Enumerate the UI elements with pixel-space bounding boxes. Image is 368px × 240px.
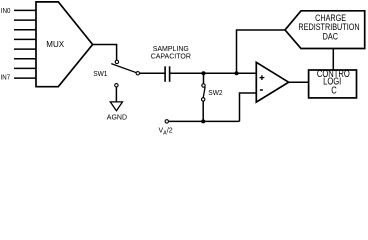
node junction bottom	[201, 119, 205, 123]
wire input 7	[14, 67, 36, 69]
svg-text:REDISTRIBUTION: REDISTRIBUTION	[298, 22, 359, 32]
wire junction to DAC	[237, 30, 286, 73]
switch SW1 arm	[111, 64, 138, 74]
wire capacitor to comparator	[170, 72, 257, 74]
wire input IN7	[14, 77, 36, 79]
wire input IN0	[14, 9, 36, 11]
wire input 6	[14, 58, 36, 60]
wire input 3	[14, 29, 36, 31]
AGND terminal circle	[115, 84, 118, 87]
svg-text:MUX: MUX	[46, 40, 64, 49]
switch SW2 terminal circle top	[202, 84, 205, 87]
dac U3 charge redistribution	[285, 11, 365, 49]
wire SW1 to sampling capacitor	[140, 72, 166, 74]
terminal circle VA/2	[165, 120, 168, 123]
svg-text:IN7: IN7	[1, 74, 11, 81]
switch SW2 arm	[203, 87, 205, 98]
op-amp comparator U2	[256, 62, 288, 102]
switch SW2 terminal circle bottom	[202, 98, 205, 101]
comparator minus sign	[260, 89, 263, 91]
svg-text:IN0: IN0	[1, 8, 11, 15]
wire junction to SW2	[203, 73, 205, 84]
control logic box U4	[309, 70, 357, 98]
wire bus up to comparator minus input	[240, 93, 257, 121]
comparator plus sign	[260, 77, 265, 79]
svg-text:SAMPLING: SAMPLING	[153, 46, 189, 53]
wire dac to control logic	[332, 49, 334, 70]
wire input 4	[14, 38, 36, 40]
switch SW1 terminal circle 1	[115, 60, 118, 63]
svg-text:CAPACITOR: CAPACITOR	[151, 54, 191, 61]
wire input 2	[14, 19, 36, 21]
capacitor C1 sampling plates	[164, 66, 166, 82]
wire input 5	[14, 48, 36, 50]
wire SW2 to bottom bus	[202, 101, 204, 121]
svg-text:AGND: AGND	[107, 114, 127, 121]
wire AGND	[115, 87, 117, 102]
node junction at SW2	[202, 71, 206, 75]
wire mux output to SW1	[93, 45, 117, 61]
mux U1	[36, 2, 93, 87]
switch SW1 terminal circle 2	[136, 72, 139, 75]
svg-text:C: C	[331, 84, 337, 95]
ground AGND triangle	[110, 102, 122, 111]
svg-text:SW2: SW2	[208, 90, 222, 97]
wire comparator output	[289, 81, 308, 83]
node junction to DAC	[235, 71, 239, 75]
wire bottom bus	[169, 120, 240, 122]
svg-text:SW1: SW1	[93, 71, 107, 78]
svg-text:DAC: DAC	[323, 32, 338, 42]
